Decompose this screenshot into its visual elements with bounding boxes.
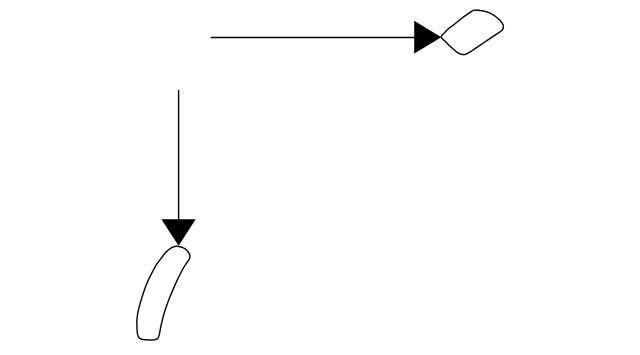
arrowhead right — [414, 21, 441, 54]
arrowhead down — [161, 219, 195, 245]
wire — [178, 90, 180, 220]
node B — [137, 246, 190, 340]
node A — [441, 10, 503, 54]
wire — [211, 37, 416, 39]
